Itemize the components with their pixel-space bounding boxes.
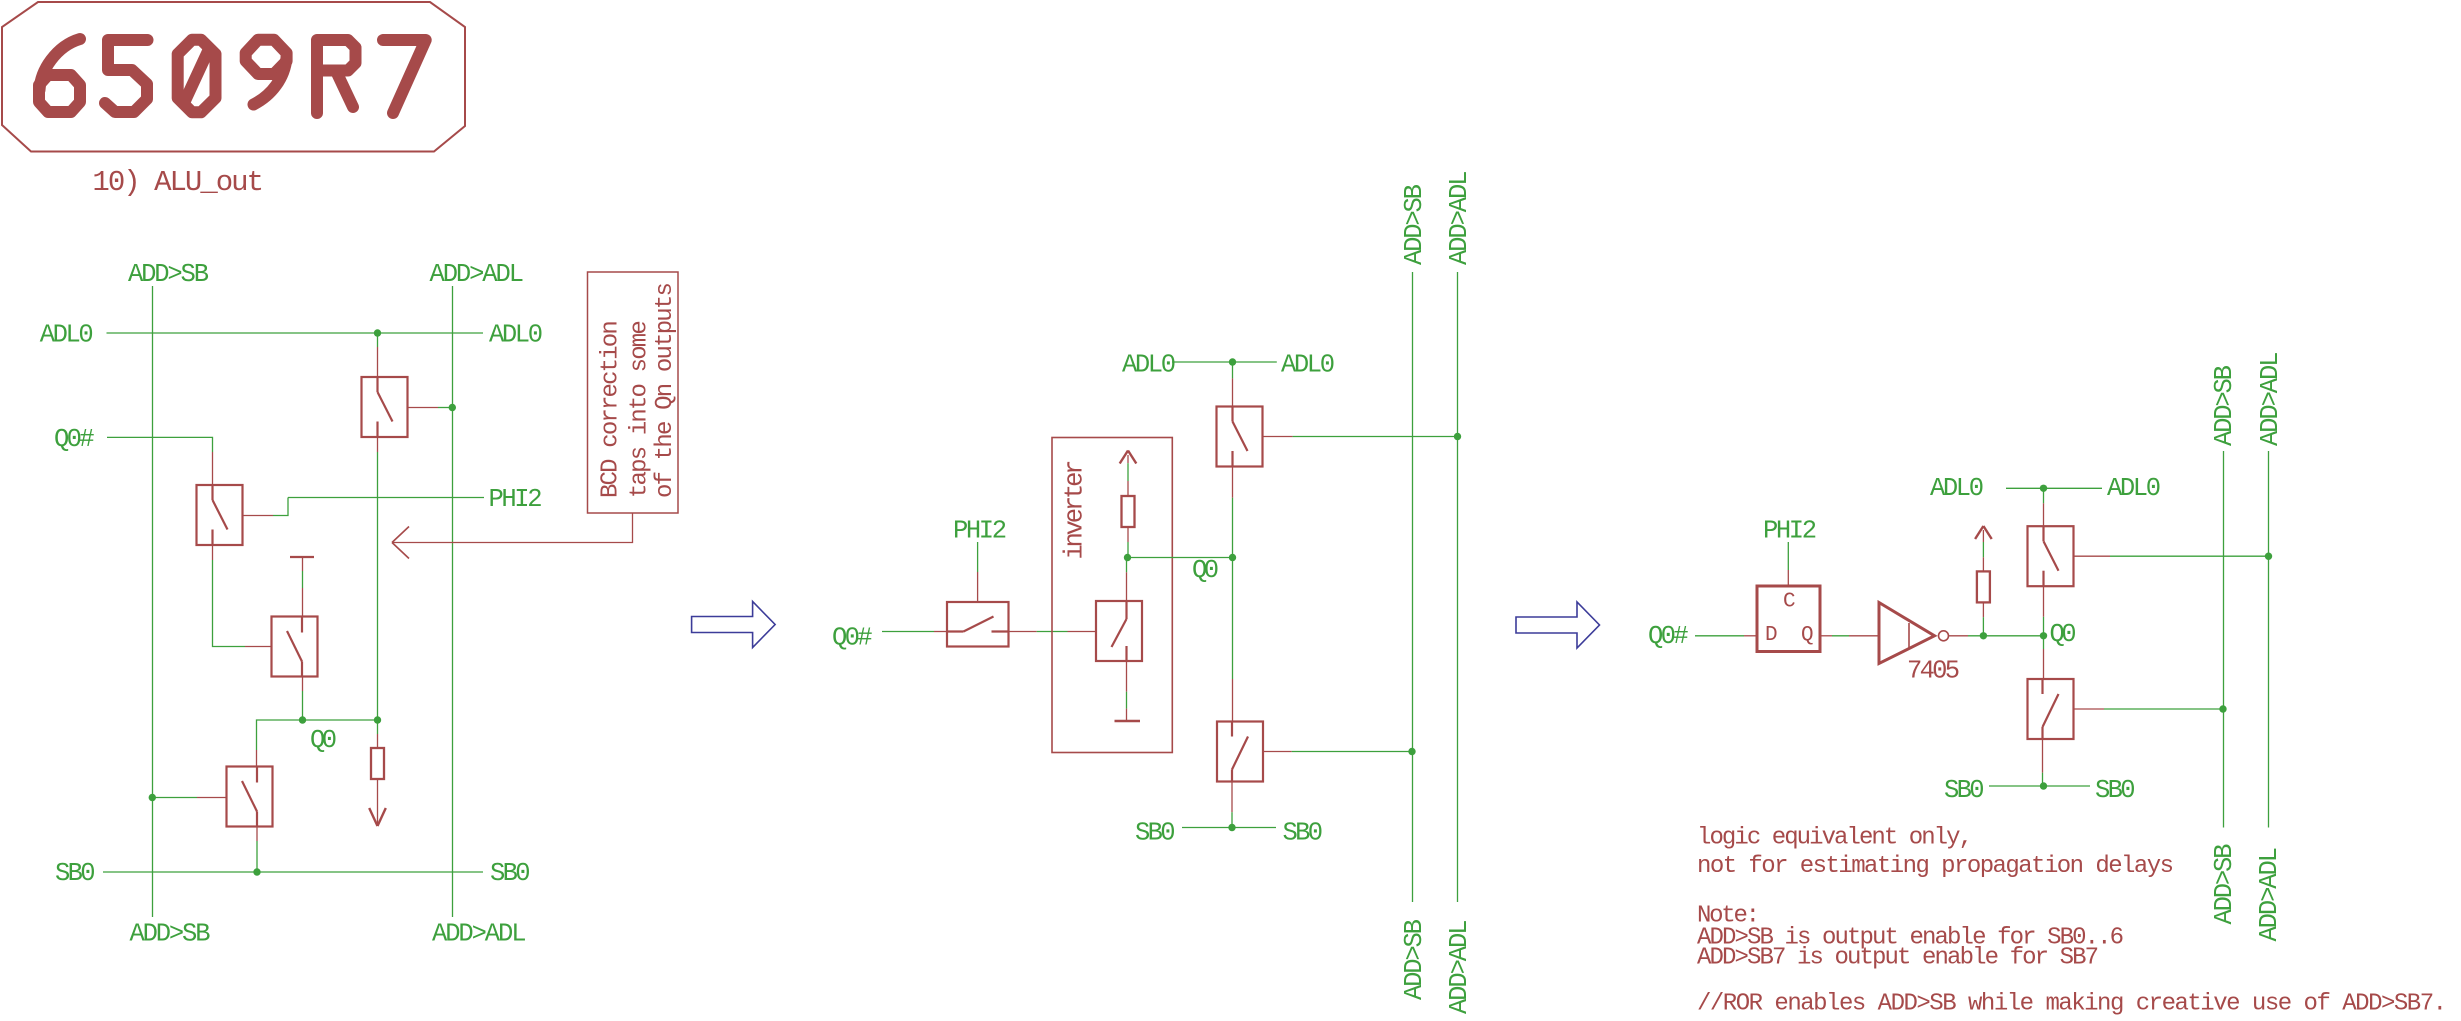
pin T2 source stub bbox=[212, 545, 214, 560]
wire T8 gate to ADD>SB (right) bbox=[2104, 708, 2223, 710]
junction Q0 / pulldown bbox=[374, 716, 381, 723]
pin T7 gate stub bbox=[2074, 555, 2111, 557]
inverter U2 inner mark bbox=[1908, 623, 1910, 649]
switch S1 (PHI2 pass switch) bbox=[947, 602, 1009, 647]
flow arrow 1 (blue) bbox=[692, 602, 776, 648]
svg-text:10) ALU_out: 10) ALU_out bbox=[92, 166, 264, 199]
wire T1 drain (ADL0 down to T1) bbox=[377, 333, 379, 347]
svg-text:SB0: SB0 bbox=[490, 859, 531, 888]
junction ADL0 / T5 (middle) bbox=[1229, 358, 1236, 365]
wire ADL0 (right section) bbox=[2006, 487, 2102, 489]
pin latch Q stub bbox=[1820, 635, 1832, 637]
svg-text:D: D bbox=[1765, 624, 1778, 647]
wire T4 gate to ADD>SB bbox=[152, 797, 197, 799]
wire T3 drain bbox=[302, 571, 304, 588]
logo text 6509R7 bbox=[39, 39, 426, 113]
inverter U2 output bubble bbox=[1939, 631, 1949, 641]
svg-text:ADL0: ADL0 bbox=[1281, 351, 1335, 380]
inverter group box bbox=[1052, 438, 1172, 753]
pin T1 drain stub bbox=[377, 347, 379, 377]
junction Q0 bus (middle) bbox=[1229, 554, 1236, 561]
wire T2 gate to PHI2 bbox=[273, 498, 288, 516]
wire Q0 down to T8 (right) bbox=[2043, 636, 2045, 649]
pin S1 left stub bbox=[934, 631, 947, 633]
wire S2 source to ground bbox=[1126, 692, 1128, 709]
pin T4 source stub bbox=[256, 827, 258, 842]
wire ADL0 (middle) bbox=[1172, 361, 1277, 363]
wire ADD>ADL vertical bus (left) bbox=[452, 286, 454, 917]
transistor T3 (inverter pull-up) bbox=[272, 617, 318, 677]
svg-text:SB0: SB0 bbox=[2095, 776, 2136, 805]
wire SB0 (right section) bbox=[1989, 785, 2090, 787]
wire ADD>ADL vertical bus (middle) bbox=[1457, 272, 1459, 902]
wire PHI2 to S1 bbox=[977, 542, 979, 572]
svg-text:ADL0: ADL0 bbox=[2107, 474, 2161, 503]
pin R3 bottom stub bbox=[1982, 602, 1984, 617]
svg-text:Q: Q bbox=[1801, 624, 1814, 647]
pin T2 drain stub bbox=[212, 452, 214, 485]
svg-text:ADL0: ADL0 bbox=[1122, 351, 1176, 380]
svg-text:of the Qn outputs: of the Qn outputs bbox=[652, 282, 679, 498]
junction T1 gate / ADD>ADL bbox=[449, 404, 456, 411]
pin ground stub bbox=[1126, 709, 1128, 720]
junction SB0 / T6 (middle) bbox=[1228, 824, 1235, 831]
svg-text:ADD>ADL: ADD>ADL bbox=[2255, 847, 2284, 942]
svg-text:Q0#: Q0# bbox=[832, 624, 873, 653]
svg-text:PHI2: PHI2 bbox=[1763, 517, 1817, 546]
pin T3 drain stub (top) bbox=[302, 558, 304, 571]
svg-text:BCD correction: BCD correction bbox=[598, 320, 625, 498]
wire R3 to Q0 wire (right) bbox=[1982, 617, 1984, 636]
wire ADD>ADL vertical bus (right) bbox=[2268, 451, 2270, 828]
wire Q0# to S1 bbox=[882, 631, 934, 633]
flow arrow 2 (blue) bbox=[1516, 602, 1600, 648]
wire ADL0 (left section) bbox=[107, 332, 484, 334]
ground symbol (inverter) bbox=[1115, 720, 1141, 722]
wire T2 source to T3 gate bbox=[213, 560, 246, 647]
pin T7 drain stub bbox=[2043, 503, 2045, 526]
junction pull-up / Q0 wire (right) bbox=[1980, 632, 1987, 639]
pin S2 source stub bbox=[1126, 661, 1128, 692]
junction SB0 / T4 bbox=[253, 868, 260, 875]
supply arrow VCC (right pull-up) bbox=[1975, 526, 1992, 539]
junction T6 gate / ADD>SB (middle) bbox=[1408, 748, 1415, 755]
pointer arrowhead (left) bbox=[392, 527, 409, 559]
pin T8 drain stub bbox=[2043, 649, 2045, 679]
pin T3 source stub bbox=[302, 677, 304, 692]
svg-text:Q0: Q0 bbox=[2050, 620, 2077, 649]
svg-text:Q0: Q0 bbox=[310, 726, 337, 755]
svg-text:Q0#: Q0# bbox=[54, 425, 95, 454]
supply arrow VSS (down) bbox=[369, 808, 386, 826]
junction T8 gate / ADD>SB (right) bbox=[2219, 705, 2226, 712]
wire Q0 to pulldown resistor bbox=[377, 720, 379, 734]
pin R2 bottom stub bbox=[1127, 527, 1129, 542]
wire T3 source to Q0 node bbox=[302, 691, 304, 720]
svg-text:PHI2: PHI2 bbox=[953, 517, 1007, 546]
pin T2 gate stub bbox=[243, 515, 274, 517]
svg-text:ADD>SB: ADD>SB bbox=[2210, 365, 2239, 446]
wire S1 to S2 gate bbox=[1037, 631, 1068, 633]
junction Q0 / T3 bbox=[299, 716, 306, 723]
svg-text:Q0: Q0 bbox=[1192, 556, 1219, 585]
svg-text:inverter: inverter bbox=[1061, 460, 1090, 560]
wire latch Q to inverter bbox=[1832, 635, 1849, 637]
pin inverter input stub bbox=[1849, 635, 1878, 637]
pin T7 source stub bbox=[2043, 586, 2045, 617]
wire T1 gate to ADD>ADL bbox=[438, 407, 452, 409]
pin T4 gate stub bbox=[197, 797, 227, 799]
latch U1 (D-latch) bbox=[1757, 586, 1820, 652]
pin resistor R1 stub (top) bbox=[377, 734, 379, 748]
junction Q0 bus (right) bbox=[2040, 632, 2047, 639]
wire T5 gate to ADD>ADL (middle) bbox=[1293, 436, 1458, 438]
transistor T5 (ADL0 pass gate, middle) bbox=[1217, 407, 1263, 467]
wire ADD>SB vertical bus (middle) bbox=[1412, 272, 1414, 902]
pin T3 gate stub bbox=[245, 646, 272, 648]
wire PHI2 (left section) bbox=[288, 497, 484, 499]
pin S1 right stub bbox=[1009, 631, 1037, 633]
transistor T1 (ADL0 pass gate) bbox=[362, 377, 408, 437]
svg-text:ADD>ADL: ADD>ADL bbox=[1445, 920, 1474, 1015]
svg-text:SB0: SB0 bbox=[1135, 819, 1176, 848]
resistor R1 (Q0 pulldown) bbox=[371, 748, 384, 779]
wire VCC arrow shaft (right) bbox=[1982, 530, 1984, 571]
pin T5 source stub bbox=[1232, 467, 1234, 498]
wire T7 gate to ADD>ADL (right) bbox=[2110, 555, 2269, 557]
pin S2 gate stub bbox=[1068, 631, 1097, 633]
pin T8 source stub bbox=[2042, 739, 2044, 773]
supply arrow VCC (middle pull-up) bbox=[1120, 451, 1137, 464]
wire T7 drain bbox=[2043, 488, 2045, 503]
pin T1 source stub bbox=[377, 437, 379, 452]
text box BCD note frame bbox=[588, 272, 679, 513]
plate cap above T3 bbox=[290, 556, 314, 558]
svg-text:C: C bbox=[1783, 591, 1796, 614]
wire T8 source to SB0 (right) bbox=[2042, 773, 2044, 786]
pin T5 drain stub bbox=[1232, 378, 1234, 406]
wire T1 source down to Q0 node bbox=[377, 452, 379, 720]
junction ADL0 / T1 drain bbox=[374, 329, 381, 336]
logo frame octagon bbox=[2, 2, 465, 152]
wire PHI2 to latch C bbox=[1787, 542, 1789, 570]
svg-text:ADD>ADL: ADD>ADL bbox=[432, 920, 527, 949]
wire R2 to Q0 node (middle) bbox=[1127, 542, 1129, 558]
wire inverter out to Q0 (right) bbox=[1968, 635, 2044, 637]
pin T6 source stub bbox=[1231, 782, 1233, 813]
pointer wire from BCD note bbox=[392, 513, 633, 543]
transistor T2 (PHI2 sampling gate) bbox=[197, 485, 243, 545]
pin S2 drain stub bbox=[1126, 572, 1128, 601]
pin T6 drain stub bbox=[1232, 679, 1234, 722]
pin T6 gate stub bbox=[1263, 751, 1292, 753]
wire ADD>SB vertical bus (left) bbox=[152, 286, 154, 917]
resistor R2 (inverter load) bbox=[1122, 496, 1135, 527]
svg-text:PHI2: PHI2 bbox=[489, 485, 543, 514]
svg-text:Q0#: Q0# bbox=[1648, 622, 1689, 651]
wire VCC arrow shaft (middle) bbox=[1127, 455, 1129, 496]
pin inverter output stub bbox=[1949, 635, 1968, 637]
svg-text:ADL0: ADL0 bbox=[489, 321, 543, 350]
transistor S2 (inverter driver) bbox=[1096, 601, 1142, 661]
transistor T7 (ADL0 pass gate, right) bbox=[2028, 526, 2074, 586]
svg-text:ADD>ADL: ADD>ADL bbox=[2256, 352, 2285, 447]
svg-text:ADD>SB: ADD>SB bbox=[2210, 844, 2239, 925]
pin T4 drain stub bbox=[256, 750, 258, 767]
svg-text:ADD>SB: ADD>SB bbox=[130, 920, 211, 949]
transistor T8 (SB0 pass gate, right) bbox=[2028, 679, 2074, 739]
wire ADD>SB vertical bus (right) bbox=[2223, 451, 2225, 828]
junction T7 gate / ADD>ADL (right) bbox=[2265, 553, 2272, 560]
svg-text:ADL0: ADL0 bbox=[1930, 474, 1984, 503]
wire T7 source to Q0 (right) bbox=[2043, 617, 2045, 636]
wire Q0# to T2 bbox=[107, 437, 213, 452]
transistor T6 (SB0 pass gate, middle) bbox=[1217, 722, 1263, 782]
svg-text:SB0: SB0 bbox=[1283, 819, 1324, 848]
wire Q0 node down to T6 (middle) bbox=[1232, 558, 1234, 680]
svg-text:taps into some: taps into some bbox=[627, 320, 654, 498]
junction T4 gate / ADD>SB bbox=[149, 794, 156, 801]
svg-text:ADL0: ADL0 bbox=[40, 321, 94, 350]
svg-text:ADD>ADL: ADD>ADL bbox=[430, 260, 525, 289]
svg-text:ADD>ADL: ADD>ADL bbox=[1445, 171, 1474, 266]
wire T5 source to Q0 node (middle) bbox=[1232, 498, 1234, 558]
junction SB0 / T8 (right) bbox=[2040, 782, 2047, 789]
svg-text:SB0: SB0 bbox=[55, 859, 96, 888]
wire T4 source to SB0 bbox=[256, 841, 258, 872]
inverter U2 triangle (7405) bbox=[1879, 603, 1935, 664]
wire T6 source to SB0 (middle) bbox=[1231, 812, 1233, 827]
wire T6 gate to ADD>SB (middle) bbox=[1292, 751, 1412, 753]
wire R1 to VSS arrow bbox=[377, 779, 379, 825]
svg-text:SB0: SB0 bbox=[1944, 776, 1985, 805]
svg-text:ADD>SB: ADD>SB bbox=[1400, 184, 1429, 265]
wire T5 drain bbox=[1232, 362, 1234, 378]
pin T3 drain stub (lower) bbox=[302, 588, 304, 617]
resistor R3 (7405 pull-up) bbox=[1977, 571, 1990, 602]
svg-text://ROR enables ADD>SB while mak: //ROR enables ADD>SB while making creati… bbox=[1697, 991, 2447, 1018]
svg-text:ADD>SB: ADD>SB bbox=[1400, 919, 1429, 1000]
transistor T4 (output driver) bbox=[227, 767, 273, 827]
wire S2 drain bbox=[1126, 558, 1128, 573]
svg-text:ADD>SB7 is output enable for S: ADD>SB7 is output enable for SB7 bbox=[1697, 945, 2099, 972]
svg-text:ADD>SB: ADD>SB bbox=[128, 260, 209, 289]
junction ADL0 / T7 (right) bbox=[2040, 485, 2047, 492]
wire SB0 (left section) bbox=[103, 871, 483, 873]
wire Q0 node inverter to bus (middle) bbox=[1128, 557, 1233, 559]
pin latch C stub bbox=[1787, 570, 1789, 586]
wire SB0 (middle) bbox=[1182, 827, 1276, 829]
pin latch D stub bbox=[1744, 635, 1757, 637]
svg-text:7405: 7405 bbox=[1907, 657, 1960, 686]
pin T5 gate stub bbox=[1263, 436, 1293, 438]
pin T8 gate stub bbox=[2074, 708, 2105, 710]
junction T5 gate / ADD>ADL (middle) bbox=[1454, 433, 1461, 440]
wire Q0 node (left section) bbox=[257, 720, 378, 750]
pin S1 control stub bbox=[977, 572, 979, 602]
pin T1 gate stub bbox=[408, 407, 439, 409]
junction Q0 / R2 / S2 (middle) bbox=[1124, 554, 1131, 561]
svg-text:logic equivalent only,: logic equivalent only, bbox=[1697, 825, 1973, 852]
wire Q0# to latch bbox=[1695, 635, 1744, 637]
svg-text:not for estimating propagation: not for estimating propagation delays bbox=[1697, 853, 2174, 880]
